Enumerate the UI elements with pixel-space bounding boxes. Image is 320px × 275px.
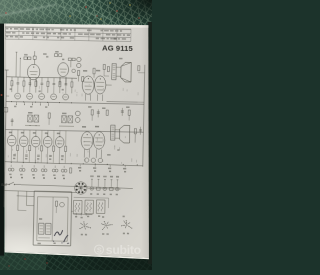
svg-text:S: S bbox=[97, 245, 102, 254]
svg-text:subito: subito bbox=[106, 243, 142, 257]
svg-text:BAT: BAT bbox=[1, 183, 7, 187]
svg-text:AG 9115: AG 9115 bbox=[102, 43, 134, 53]
